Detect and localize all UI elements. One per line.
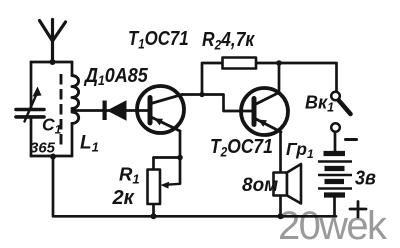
svg-text:Т1ОС71: Т1ОС71 (128, 26, 189, 51)
svg-text:Д10А85: Д10А85 (83, 65, 148, 88)
svg-text:2к: 2к (112, 187, 135, 209)
svg-text:20wek: 20wek (278, 204, 388, 248)
svg-text:8ом: 8ом (242, 175, 278, 196)
svg-text:R24,7к: R24,7к (202, 29, 255, 53)
svg-text:365: 365 (30, 140, 56, 157)
svg-text:Т2ОС71: Т2ОС71 (210, 136, 273, 160)
svg-text:3в: 3в (355, 168, 376, 190)
